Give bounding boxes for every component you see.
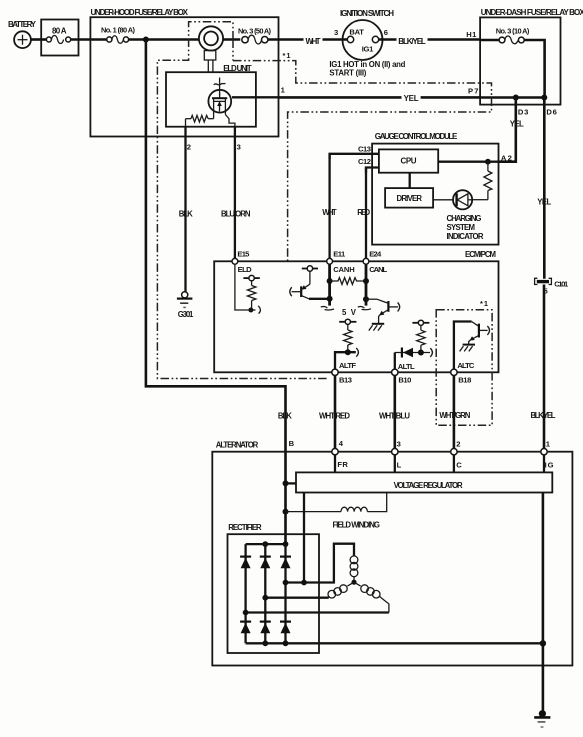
driver U2 xyxy=(385,188,433,208)
rectifier bottom bus to ground wire xyxy=(246,642,543,644)
ELD input circuit inside ECM xyxy=(235,264,261,313)
svg-text:G301: G301 xyxy=(178,310,194,319)
svg-text:*1: *1 xyxy=(480,299,488,308)
svg-text:CANL: CANL xyxy=(369,265,387,274)
wire battery to 80A fuse xyxy=(31,38,47,41)
svg-text:START (III): START (III) xyxy=(329,68,366,77)
alternator box xyxy=(212,441,572,666)
svg-text:ALTC: ALTC xyxy=(457,361,475,370)
stator phase B wire xyxy=(265,597,328,599)
wire C13 to CPU xyxy=(330,154,379,159)
rectifier top bus xyxy=(246,543,286,545)
svg-text:WHT/GRN: WHT/GRN xyxy=(439,411,470,420)
junction phase B col2 xyxy=(262,595,268,601)
junction phase C col1 xyxy=(243,610,249,616)
junction D6 xyxy=(541,95,547,101)
svg-text:BATTERY: BATTERY xyxy=(8,20,37,29)
svg-text:H1: H1 xyxy=(466,30,477,39)
ELD internal source wire to pin 3 xyxy=(225,115,235,128)
diode D5 xyxy=(260,622,271,634)
svg-text:SYSTEM: SYSTEM xyxy=(447,223,476,232)
field winding L1 xyxy=(286,493,387,530)
svg-text:CHARGING: CHARGING xyxy=(447,214,482,223)
pin E15 xyxy=(232,249,252,274)
fuse 80 A box xyxy=(41,20,78,56)
stator coil right xyxy=(354,582,389,612)
diode D (ALTL) xyxy=(395,348,433,358)
svg-text:CPU: CPU xyxy=(401,156,417,165)
wire fuse1 to ELD sensor xyxy=(129,38,199,41)
rectifier column 1 wire xyxy=(244,544,246,643)
svg-text:UNDER-HOOD FUSE/RELAY BOX: UNDER-HOOD FUSE/RELAY BOX xyxy=(91,8,189,17)
wire ALTL node to pin xyxy=(394,353,396,370)
junction node on B+ bus xyxy=(143,37,149,43)
wire C to regulator xyxy=(453,455,455,473)
wire B+ BLK under-hood to alternator B xyxy=(146,40,286,545)
voltage regulator box xyxy=(296,472,552,492)
svg-text:C13: C13 xyxy=(358,144,371,153)
svg-text:BLK: BLK xyxy=(278,411,292,420)
fuse No. 3 (50 A) xyxy=(238,26,272,44)
wire BLK/YEL to under-dash box pin H1 xyxy=(428,38,481,41)
pin E11 xyxy=(327,250,355,274)
terminal 2 / C xyxy=(451,439,463,469)
wire WHT/RED B13 to alternator 4 xyxy=(334,376,337,449)
label CHARGING SYSTEM INDICATOR xyxy=(447,214,484,241)
dash-dot shield box around ELD sensor xyxy=(157,22,327,379)
junction CANL (transistor) xyxy=(363,296,369,302)
ECM/PCM box xyxy=(214,250,498,372)
under-dash fuse/relay box xyxy=(480,8,583,104)
stator phase A wire xyxy=(286,544,355,583)
transistor Q1 (CAN driver, PNP) xyxy=(290,266,330,299)
junction top bus col2 xyxy=(262,541,268,547)
wire CPU to A2 xyxy=(438,161,498,163)
fuse No. 1 (80 A) xyxy=(101,25,136,43)
wire E24 to CANL node xyxy=(365,264,368,305)
wire FR to regulator xyxy=(334,455,336,473)
junction CANH (resistor) xyxy=(327,278,333,284)
terminal 3 / L xyxy=(392,439,402,469)
terminal 1 / IG xyxy=(541,439,554,469)
wire WHT/BLU B10 to alternator 3 xyxy=(393,376,396,449)
svg-text:IG: IG xyxy=(545,460,554,469)
junction phase A regulator tap xyxy=(301,580,307,586)
svg-text:3: 3 xyxy=(397,439,401,448)
svg-text:C: C xyxy=(456,460,462,469)
svg-text:BLK: BLK xyxy=(179,210,193,219)
ignition switch SW xyxy=(334,9,394,60)
svg-text:D6: D6 xyxy=(546,107,557,116)
svg-text:B: B xyxy=(289,439,295,448)
wire regulator/rectifier to chassis ground xyxy=(542,493,545,713)
ELD pin 2 stub inside xyxy=(185,119,187,127)
junction bottom bus col2 xyxy=(262,640,268,646)
diode D2 xyxy=(260,557,271,569)
svg-text:IG1: IG1 xyxy=(362,45,374,54)
svg-text:RECTIFIER: RECTIFIER xyxy=(228,523,262,532)
CANH continuation hook xyxy=(321,307,328,309)
junction B/field xyxy=(283,509,289,515)
wire fuse No.3(10A) down to D6 xyxy=(524,40,544,98)
resistor in ELD unit xyxy=(186,115,214,122)
gauge control module box xyxy=(372,132,498,245)
resistor R (indicator pull-up) xyxy=(484,162,492,200)
transistor Q2 (CAN, NPN) xyxy=(366,299,400,323)
wire ignition to BLK/YEL label xyxy=(379,38,397,41)
wire YEL D3 down to A2 xyxy=(499,98,516,162)
5 V supply node xyxy=(339,308,357,325)
wire YEL D6 down xyxy=(543,98,546,279)
svg-text:BLK/YEL: BLK/YEL xyxy=(531,411,556,420)
transistor Q3 (ALTC, NPN) xyxy=(454,322,490,370)
svg-text:IGNITION SWITCH: IGNITION SWITCH xyxy=(340,9,394,18)
connector C101 pin 5 xyxy=(535,278,569,295)
wire 80A fuse to under-hood box xyxy=(71,38,107,41)
junction B/regulator xyxy=(283,480,289,486)
pin ALTL / B10 xyxy=(392,362,415,385)
terminal 4 / FR xyxy=(332,439,349,469)
wire IG to regulator xyxy=(543,455,545,473)
wire sensor to fuse No.3 xyxy=(223,38,240,41)
junction node CPU/resistor xyxy=(485,159,491,165)
CPU U1 xyxy=(379,149,438,172)
svg-text:C12: C12 xyxy=(358,157,371,166)
under-hood fuse/relay box xyxy=(90,8,278,137)
dash-dot harness route to *1 xyxy=(233,61,492,261)
svg-text:No. 3 (10 A): No. 3 (10 A) xyxy=(496,26,530,35)
LED charging system indicator xyxy=(453,190,472,209)
svg-text:RED: RED xyxy=(357,208,370,217)
svg-text:BLK/YEL: BLK/YEL xyxy=(398,37,426,46)
junction top bus col3 xyxy=(283,541,289,547)
stator coil left xyxy=(328,582,354,598)
wire B to voltage regulator xyxy=(286,482,297,484)
stator wye center xyxy=(351,580,356,585)
svg-text:3: 3 xyxy=(237,142,241,151)
pin ALTC / B18 xyxy=(451,361,475,384)
svg-text:ECM/PCM: ECM/PCM xyxy=(465,250,496,259)
svg-text:WHT: WHT xyxy=(306,37,321,46)
wire C12 to CPU xyxy=(366,168,379,174)
svg-text:2: 2 xyxy=(456,439,460,448)
note IG1 HOT xyxy=(329,60,405,78)
junction CANL (resistor) xyxy=(363,278,369,284)
svg-text:FIELD WINDING: FIELD WINDING xyxy=(333,520,381,529)
svg-text:ELD: ELD xyxy=(238,265,253,274)
svg-text:B18: B18 xyxy=(458,376,471,385)
svg-text:E15: E15 xyxy=(237,249,250,258)
wire E11 to CANH node xyxy=(328,264,331,305)
svg-text:GAUGE CONTROL MODULE: GAUGE CONTROL MODULE xyxy=(375,132,458,141)
svg-text:C101: C101 xyxy=(554,279,569,288)
diode D1 xyxy=(240,557,251,569)
svg-text:UNDER-DASH FUSE/RELAY BOX: UNDER-DASH FUSE/RELAY BOX xyxy=(481,8,583,17)
svg-text:No. 1 (80 A): No. 1 (80 A) xyxy=(101,25,136,34)
svg-text:80 A: 80 A xyxy=(52,27,67,36)
dash-dot box *1 (ALTC option) xyxy=(436,310,492,426)
wire CPU to driver xyxy=(409,173,411,188)
fuse No. 3 (10 A) xyxy=(480,26,530,43)
svg-text:ALTF: ALTF xyxy=(339,361,356,370)
svg-text:ALTL: ALTL xyxy=(398,362,415,371)
ALTF node wire and hook xyxy=(335,348,358,369)
svg-text:BAT: BAT xyxy=(349,27,364,36)
junction phase A col3 xyxy=(283,580,289,586)
ground G101 (alternator) xyxy=(534,710,550,727)
svg-text:FR: FR xyxy=(337,460,348,469)
svg-text:YEL: YEL xyxy=(537,198,551,207)
svg-text:E11: E11 xyxy=(333,250,346,259)
svg-text:D3: D3 xyxy=(518,107,529,116)
svg-text:3: 3 xyxy=(334,28,338,37)
diode D6 xyxy=(280,622,291,634)
stator coil top xyxy=(350,556,358,582)
junction CANH (transistor) xyxy=(327,296,333,302)
svg-text:WHT: WHT xyxy=(322,208,337,217)
wire BLK ELD pin2 to G301 xyxy=(184,127,186,292)
wire WHT C13 down to E11 xyxy=(328,154,330,259)
svg-text:VOLTAGE REGULATOR: VOLTAGE REGULATOR xyxy=(394,481,463,490)
ELD current sensor ring xyxy=(199,26,223,72)
ground G301 xyxy=(177,292,194,319)
wire driver to LED xyxy=(433,199,453,201)
svg-text:BLU/ORN: BLU/ORN xyxy=(221,210,251,219)
svg-text:2: 2 xyxy=(187,142,191,151)
wire BLU/ORN ELD pin3 to ECM E15 xyxy=(234,127,236,259)
wire P7 to D6 inside under-dash box xyxy=(480,96,544,99)
ELD unit pin 1 stub xyxy=(232,96,256,98)
diode D4 xyxy=(240,622,251,634)
wire WHT to ignition switch xyxy=(323,38,348,41)
diode D3 xyxy=(280,557,291,569)
CANL continuation hook xyxy=(358,307,365,309)
svg-text:B13: B13 xyxy=(339,376,352,385)
svg-text:INDICATOR: INDICATOR xyxy=(447,232,484,241)
resistor CANH-CANL xyxy=(330,278,366,285)
resistor 5V pull-up (ALTF) xyxy=(344,324,352,352)
svg-text:WHT/RED: WHT/RED xyxy=(319,411,350,420)
wire WHT/GRN B18 to alternator 2 xyxy=(453,376,456,449)
svg-text:YEL: YEL xyxy=(404,94,419,103)
wire YEL pin1 to P7 xyxy=(279,96,402,99)
svg-text:CANH: CANH xyxy=(333,265,355,274)
svg-text:E24: E24 xyxy=(369,250,382,259)
wire YEL to P7 xyxy=(421,96,481,99)
junction bottom bus col3 xyxy=(283,640,289,646)
wire fuse No.3 to WHT label xyxy=(268,38,304,41)
pin E24 xyxy=(363,250,387,274)
svg-text:L: L xyxy=(397,460,402,469)
resistor ALTL pull-up xyxy=(412,320,429,352)
rectifier box xyxy=(228,523,320,653)
wire regulator to stator tap xyxy=(303,493,305,583)
ELD unit box xyxy=(166,64,256,127)
ground (ALTC transistor) xyxy=(460,345,475,352)
svg-text:ELD UNIT: ELD UNIT xyxy=(223,64,252,73)
junction ground bus xyxy=(540,640,546,646)
wire BLK/YEL C101 down to alternator IG terminal 1 xyxy=(543,285,546,449)
svg-text:6: 6 xyxy=(384,28,388,37)
ELD unit pin 1 wire xyxy=(256,96,279,98)
svg-text:WHT/BLU: WHT/BLU xyxy=(379,411,410,420)
pin ALTF / B13 xyxy=(332,361,357,385)
wire L to regulator xyxy=(394,455,396,473)
svg-text:B10: B10 xyxy=(398,376,411,385)
svg-text:YEL: YEL xyxy=(510,119,524,128)
svg-text:ALTERNATOR: ALTERNATOR xyxy=(216,441,259,450)
rectifier column 3 wire xyxy=(284,544,286,643)
svg-text:5 V: 5 V xyxy=(342,308,357,317)
svg-text:DRIVER: DRIVER xyxy=(397,194,423,203)
wire resistor to LED xyxy=(472,199,488,201)
stator phase C wire xyxy=(246,611,389,613)
battery BAT xyxy=(8,20,37,48)
wire RED C12 down to E24 xyxy=(365,168,367,259)
MOSFET Q (ELD) xyxy=(208,78,231,119)
rectifier column 2 wire xyxy=(264,544,266,643)
ground (CAN transistor) xyxy=(369,324,384,331)
svg-text:No. 3 (50 A): No. 3 (50 A) xyxy=(238,26,272,35)
junction D3 xyxy=(513,95,519,101)
svg-text:*1: *1 xyxy=(283,51,291,60)
